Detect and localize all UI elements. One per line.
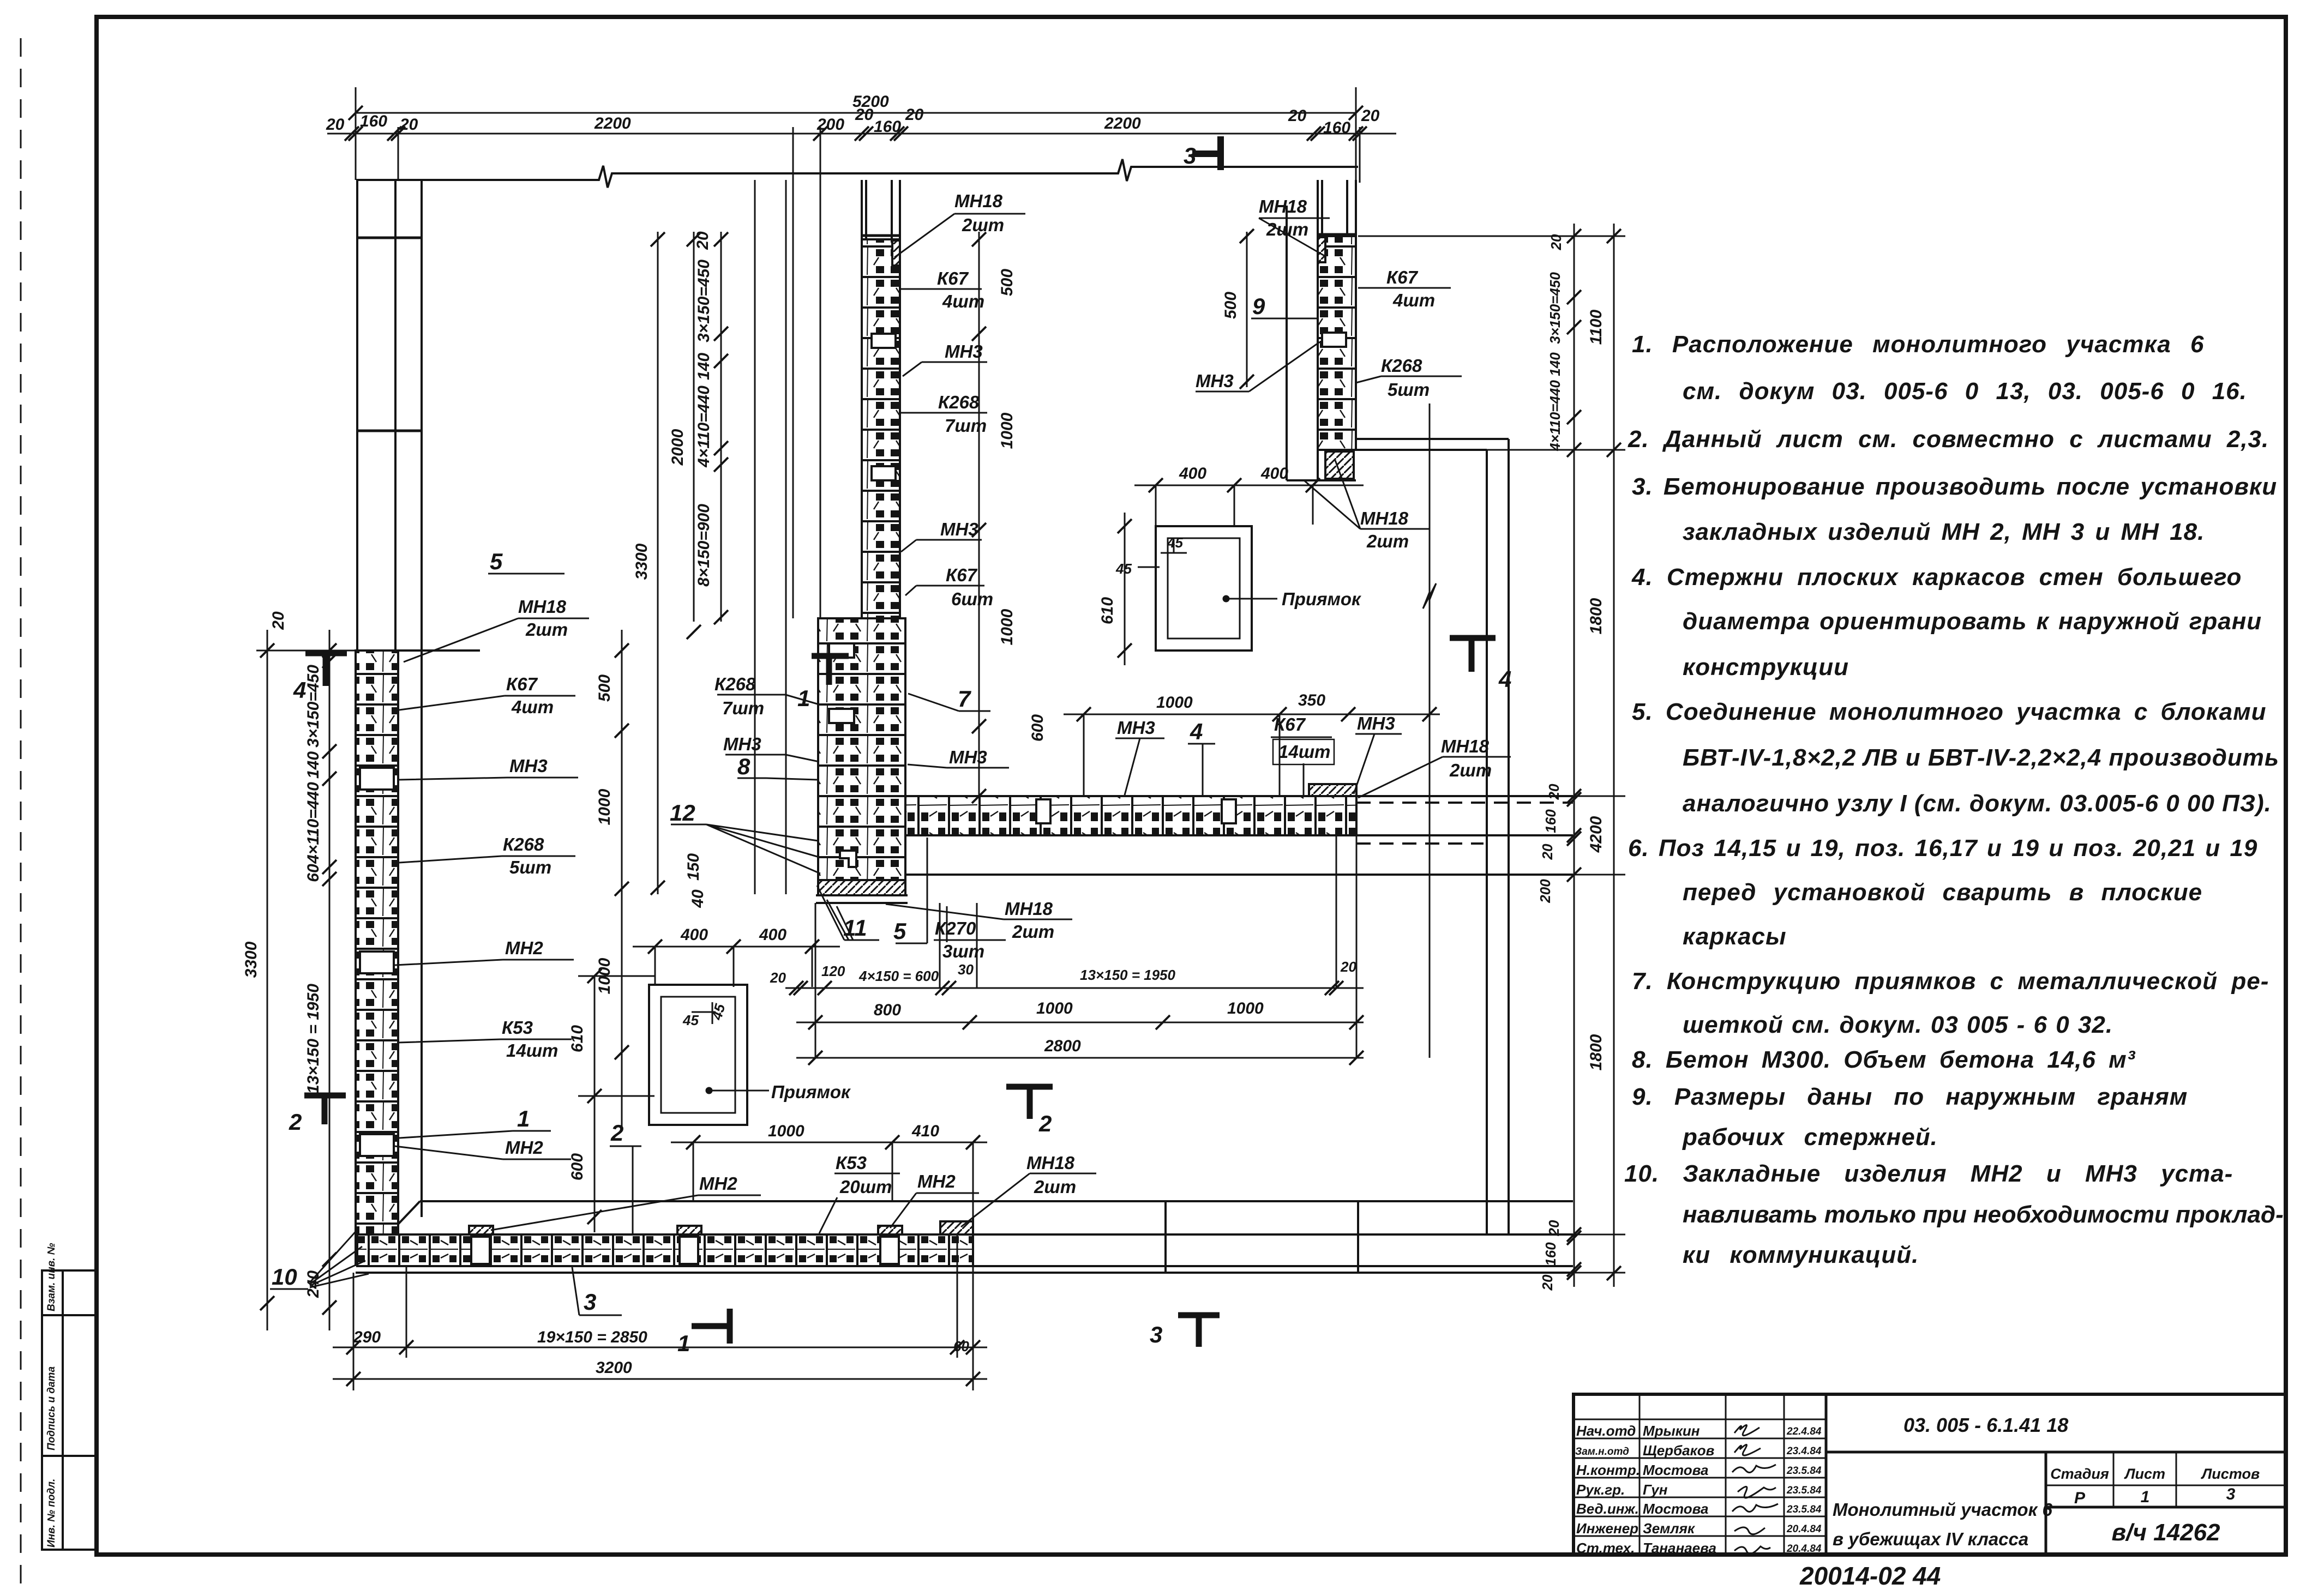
svg-text:4шт: 4шт [1392, 290, 1435, 310]
svg-text:2шт: 2шт [525, 619, 568, 640]
svg-text:Ст.тех.: Ст.тех. [1576, 1540, 1635, 1556]
svg-text:20: 20 [1288, 107, 1307, 125]
svg-text:Приямок: Приямок [1282, 589, 1362, 609]
svg-text:К268: К268 [503, 834, 544, 854]
svg-text:2: 2 [1038, 1111, 1052, 1136]
svg-text:диаметра ориентировать к нар: диаметра ориентировать к наружной грани [1683, 608, 2262, 635]
svg-text:1800: 1800 [1587, 1034, 1605, 1070]
svg-text:9. Размеры даны по н: 9. Размеры даны по наружным граням [1632, 1083, 2188, 1110]
svg-text:20: 20 [326, 116, 345, 134]
svg-text:Тананаева: Тананаева [1643, 1540, 1716, 1556]
svg-text:К53: К53 [502, 1017, 533, 1038]
svg-text:МН18: МН18 [1259, 196, 1307, 216]
svg-text:1000: 1000 [596, 788, 614, 825]
svg-text:3: 3 [584, 1289, 596, 1315]
svg-text:Мостова: Мостова [1643, 1462, 1708, 1478]
svg-text:200: 200 [816, 116, 844, 134]
svg-text:К268: К268 [714, 674, 756, 694]
svg-text:МН2: МН2 [505, 1137, 543, 1158]
svg-text:400: 400 [1179, 465, 1206, 483]
svg-text:160: 160 [874, 118, 901, 136]
svg-text:7. Конструкцию приямков: 7. Конструкцию приямков с металлической … [1632, 968, 2269, 995]
svg-text:МН3: МН3 [723, 734, 761, 754]
svg-text:Инв. № подл.: Инв. № подл. [46, 1479, 57, 1547]
svg-text:6шт: 6шт [951, 589, 993, 609]
svg-text:2шт: 2шт [1266, 219, 1308, 239]
svg-text:140: 140 [304, 751, 322, 779]
svg-text:500: 500 [596, 674, 614, 702]
svg-text:4шт: 4шт [942, 291, 984, 311]
svg-text:3: 3 [1184, 143, 1196, 168]
svg-text:160: 160 [1542, 809, 1559, 833]
svg-text:800: 800 [874, 1001, 901, 1019]
svg-text:шеткой см. докум. 03 005 -: шеткой см. докум. 03 005 - 6 0 32. [1683, 1011, 2113, 1038]
svg-text:8×150=900: 8×150=900 [695, 504, 713, 587]
svg-text:8: 8 [737, 754, 750, 779]
svg-text:160: 160 [1323, 119, 1350, 137]
svg-text:1800: 1800 [1587, 598, 1605, 634]
svg-text:4: 4 [1498, 666, 1511, 692]
svg-text:14шт: 14шт [506, 1040, 558, 1061]
svg-text:7: 7 [958, 686, 971, 712]
svg-text:3: 3 [1150, 1322, 1162, 1347]
svg-text:23.5.84: 23.5.84 [1786, 1465, 1822, 1477]
svg-text:400: 400 [759, 926, 786, 944]
svg-text:03. 005 - 6.1.41 18: 03. 005 - 6.1.41 18 [1903, 1414, 2068, 1436]
svg-text:2шт: 2шт [1012, 922, 1054, 942]
svg-text:Земляк: Земляк [1643, 1520, 1696, 1537]
svg-text:7шт: 7шт [722, 698, 764, 718]
svg-text:Взам. инв. №: Взам. инв. № [46, 1243, 57, 1311]
svg-text:1000: 1000 [1227, 999, 1264, 1017]
svg-text:1000: 1000 [998, 412, 1016, 449]
svg-text:6. Поз 14,15 и 19, поз. 16: 6. Поз 14,15 и 19, поз. 16,17 и 19 и поз… [1628, 835, 2257, 862]
svg-text:20: 20 [770, 969, 786, 986]
svg-text:600: 600 [568, 1153, 586, 1181]
svg-text:5шт: 5шт [1388, 380, 1430, 400]
svg-text:3шт: 3шт [942, 941, 984, 961]
svg-text:МН18: МН18 [1026, 1153, 1075, 1173]
svg-text:3×150=450: 3×150=450 [1547, 272, 1563, 344]
svg-text:2: 2 [289, 1109, 302, 1135]
svg-text:Гун: Гун [1643, 1481, 1668, 1498]
svg-text:20: 20 [1546, 1220, 1562, 1236]
svg-text:13×150 = 1950: 13×150 = 1950 [304, 984, 322, 1094]
svg-text:каркасы: каркасы [1683, 923, 1787, 950]
svg-text:3. Бетонирование производи: 3. Бетонирование производить после устан… [1632, 473, 2277, 500]
svg-text:МН2: МН2 [699, 1173, 737, 1194]
svg-text:3200: 3200 [596, 1359, 632, 1377]
svg-text:350: 350 [1298, 691, 1325, 709]
svg-text:20014-02 44: 20014-02 44 [1799, 1562, 1941, 1590]
svg-text:1000: 1000 [596, 957, 614, 994]
svg-text:Монолитный участок 6: Монолитный участок 6 [1833, 1499, 2052, 1520]
svg-text:Рук.гр.: Рук.гр. [1576, 1481, 1625, 1498]
svg-text:60: 60 [953, 1338, 969, 1354]
svg-text:1000: 1000 [998, 609, 1016, 645]
svg-text:рабочих стержней.: рабочих стержней. [1682, 1124, 1938, 1151]
svg-text:Мостова: Мостова [1643, 1501, 1708, 1517]
svg-text:МН18: МН18 [954, 191, 1003, 211]
svg-text:ки коммуникаций.: ки коммуникаций. [1683, 1242, 1919, 1268]
svg-text:5: 5 [490, 549, 503, 574]
svg-text:Вед.инж.: Вед.инж. [1576, 1501, 1639, 1517]
svg-text:19×150 = 2850: 19×150 = 2850 [537, 1328, 647, 1346]
svg-text:1: 1 [2141, 1488, 2150, 1506]
svg-text:4×150 = 600: 4×150 = 600 [858, 968, 939, 984]
svg-text:4×110=440: 4×110=440 [304, 782, 322, 864]
svg-text:600: 600 [1029, 714, 1047, 742]
svg-text:см. докум 03. 005-6 0 13: см. докум 03. 005-6 0 13, 03. 005-6 0 16… [1683, 378, 2247, 405]
svg-text:3300: 3300 [633, 543, 651, 580]
svg-text:2шт: 2шт [1449, 760, 1492, 780]
svg-text:2шт: 2шт [1366, 531, 1409, 551]
svg-text:Листов: Листов [2201, 1466, 2260, 1482]
svg-text:аналогично узлу I (см. докум: аналогично узлу I (см. докум. 03.005-6 0… [1683, 790, 2272, 817]
svg-text:МН3: МН3 [509, 756, 548, 776]
svg-text:2шт: 2шт [962, 215, 1004, 235]
svg-text:Нач.отд: Нач.отд [1576, 1423, 1636, 1439]
svg-text:10: 10 [272, 1264, 297, 1290]
svg-text:закладных изделий МН 2, М: закладных изделий МН 2, МН 3 и МН 18. [1683, 519, 2205, 545]
svg-text:20: 20 [1361, 107, 1380, 125]
svg-text:3300: 3300 [242, 941, 260, 978]
svg-text:2шт: 2шт [1034, 1177, 1076, 1197]
svg-text:1: 1 [797, 685, 810, 711]
svg-text:МН3: МН3 [1117, 718, 1155, 738]
svg-text:240: 240 [304, 1270, 322, 1298]
svg-text:23.4.84: 23.4.84 [1786, 1446, 1822, 1457]
svg-text:20: 20 [1546, 784, 1562, 800]
svg-text:МН18: МН18 [518, 597, 567, 617]
svg-text:60: 60 [304, 864, 322, 882]
svg-text:К67: К67 [506, 674, 538, 694]
svg-text:Стадия: Стадия [2050, 1466, 2109, 1482]
svg-text:20: 20 [905, 106, 924, 124]
svg-text:Н.контр.: Н.контр. [1576, 1462, 1640, 1478]
svg-text:конструкции: конструкции [1683, 654, 1849, 680]
svg-text:Подпись и дата: Подпись и дата [46, 1366, 57, 1450]
svg-text:4. Стержни плоских каркасов: 4. Стержни плоских каркасов стен большег… [1631, 564, 2242, 591]
svg-text:20: 20 [1539, 1274, 1556, 1291]
svg-text:навливать только при необхо: навливать только при необходимости прокл… [1683, 1201, 2284, 1228]
svg-text:400: 400 [1260, 465, 1288, 483]
svg-text:3×150=450: 3×150=450 [695, 260, 713, 342]
svg-text:20: 20 [1340, 959, 1356, 975]
svg-text:2200: 2200 [1104, 115, 1141, 133]
svg-text:2000: 2000 [669, 429, 687, 466]
svg-text:410: 410 [911, 1122, 939, 1140]
svg-text:400: 400 [680, 926, 708, 944]
svg-text:2: 2 [610, 1120, 623, 1146]
svg-text:Лист: Лист [2124, 1466, 2165, 1482]
svg-text:1: 1 [517, 1106, 530, 1131]
svg-text:К67: К67 [1386, 267, 1419, 287]
svg-text:1000: 1000 [1036, 999, 1073, 1017]
svg-text:4: 4 [1190, 719, 1203, 744]
svg-text:45: 45 [1167, 534, 1183, 551]
svg-text:2200: 2200 [594, 115, 631, 133]
svg-text:К53: К53 [836, 1153, 867, 1173]
svg-text:МН3: МН3 [1357, 713, 1395, 733]
svg-text:22.4.84: 22.4.84 [1786, 1426, 1822, 1437]
svg-text:120: 120 [821, 963, 845, 979]
svg-text:3: 3 [2226, 1485, 2236, 1503]
svg-text:7шт: 7шт [945, 415, 987, 436]
svg-text:К270: К270 [935, 918, 976, 938]
svg-text:11: 11 [843, 915, 867, 941]
svg-text:14шт: 14шт [1278, 742, 1330, 762]
svg-text:Приямок: Приямок [771, 1082, 851, 1102]
svg-text:МН3: МН3 [949, 747, 987, 767]
svg-text:К67: К67 [937, 268, 969, 288]
svg-text:5шт: 5шт [509, 857, 551, 877]
svg-text:Инженер: Инженер [1576, 1520, 1638, 1537]
svg-text:К268: К268 [1381, 356, 1422, 376]
svg-text:20.4.84: 20.4.84 [1786, 1523, 1822, 1535]
svg-text:290: 290 [353, 1328, 381, 1346]
svg-text:160: 160 [360, 112, 387, 130]
svg-text:БВТ-IV-1,8×2,2 ЛВ и БВТ-IV: БВТ-IV-1,8×2,2 ЛВ и БВТ-IV-2,2×2,4 произ… [1683, 744, 2279, 771]
svg-text:3×150=450: 3×150=450 [304, 665, 322, 748]
svg-text:Щербаков: Щербаков [1643, 1442, 1715, 1459]
svg-text:1. Расположение монолитног: 1. Расположение монолитного участка 6 [1632, 331, 2204, 358]
svg-text:610: 610 [568, 1025, 586, 1052]
svg-text:20.4.84: 20.4.84 [1786, 1543, 1822, 1555]
svg-text:23.5.84: 23.5.84 [1786, 1485, 1822, 1496]
svg-text:8. Бетон М300. Объем бетон: 8. Бетон М300. Объем бетона 14,6 м³ [1632, 1046, 2136, 1073]
svg-text:12: 12 [670, 800, 695, 826]
svg-text:МН3: МН3 [1196, 371, 1234, 391]
svg-text:4×110=440: 4×110=440 [695, 386, 713, 468]
svg-text:1000: 1000 [768, 1122, 804, 1140]
svg-text:20: 20 [855, 106, 874, 124]
svg-text:500: 500 [998, 269, 1016, 296]
svg-text:610: 610 [1098, 597, 1116, 624]
svg-text:20: 20 [1539, 844, 1556, 860]
svg-text:140: 140 [695, 353, 713, 380]
svg-text:5: 5 [893, 918, 906, 944]
svg-text:9: 9 [1252, 293, 1265, 319]
svg-text:45: 45 [682, 1012, 699, 1028]
svg-text:1000: 1000 [1156, 694, 1193, 712]
svg-text:Мрыкин: Мрыкин [1643, 1423, 1700, 1439]
svg-text:10. Закладные изделия: 10. Закладные изделия МН2 и МН3 уста- [1624, 1160, 2233, 1187]
svg-text:500: 500 [1222, 292, 1240, 319]
svg-text:2. Данный лист см. совме: 2. Данный лист см. совместно с листами 2… [1628, 426, 2269, 453]
svg-text:в/ч 14262: в/ч 14262 [2111, 1519, 2220, 1546]
svg-text:1100: 1100 [1587, 309, 1605, 345]
svg-text:перед установкой сварить: перед установкой сварить в плоские [1683, 879, 2202, 906]
svg-text:13×150 = 1950: 13×150 = 1950 [1080, 967, 1175, 983]
svg-text:140: 140 [1547, 352, 1563, 376]
svg-text:45: 45 [1115, 561, 1132, 577]
svg-text:45: 45 [708, 1002, 729, 1022]
svg-text:МН2: МН2 [505, 938, 543, 958]
svg-text:1: 1 [677, 1330, 690, 1356]
svg-text:Р: Р [2074, 1489, 2086, 1507]
svg-text:20: 20 [694, 231, 712, 250]
svg-text:МН2: МН2 [917, 1171, 956, 1191]
svg-text:20: 20 [269, 611, 287, 630]
svg-text:5. Соединение монолитного: 5. Соединение монолитного участка с блок… [1632, 698, 2267, 725]
svg-text:30: 30 [958, 961, 974, 978]
svg-text:МН18: МН18 [1005, 899, 1053, 919]
svg-text:20: 20 [1548, 234, 1564, 250]
svg-text:МН18: МН18 [1360, 508, 1409, 528]
svg-text:К67: К67 [946, 565, 978, 585]
svg-text:160: 160 [1542, 1242, 1559, 1266]
svg-text:20: 20 [399, 116, 418, 134]
svg-text:200: 200 [1537, 879, 1553, 904]
svg-text:К67: К67 [1274, 714, 1306, 734]
svg-text:4×110=440: 4×110=440 [1547, 380, 1563, 451]
svg-text:Зам.н.отд: Зам.н.отд [1575, 1446, 1629, 1458]
svg-text:2800: 2800 [1044, 1037, 1081, 1055]
svg-text:150: 150 [684, 853, 702, 881]
svg-text:МН3: МН3 [940, 519, 978, 539]
svg-text:20шт: 20шт [839, 1177, 892, 1197]
svg-text:4шт: 4шт [511, 697, 554, 717]
svg-text:К268: К268 [938, 392, 980, 412]
svg-text:МН18: МН18 [1441, 736, 1490, 756]
svg-text:23.5.84: 23.5.84 [1786, 1504, 1822, 1515]
svg-text:4200: 4200 [1587, 816, 1605, 853]
svg-text:МН3: МН3 [945, 341, 983, 362]
svg-text:40: 40 [689, 889, 707, 908]
svg-text:в убежищах IV класса: в убежищах IV класса [1833, 1529, 2028, 1549]
